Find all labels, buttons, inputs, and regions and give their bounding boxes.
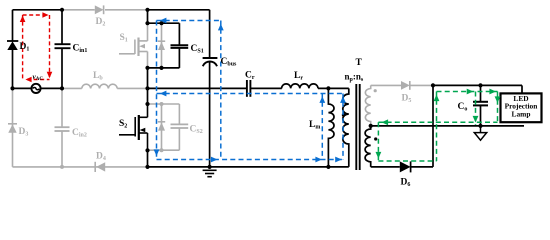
wire Cin2 leg lower: [61, 131, 63, 167]
node gray dots: [160, 102, 164, 106]
ground (under Cbus): [203, 170, 217, 176]
wire top rail gray: loop corner to D2: [62, 9, 95, 11]
wire Lb right lead: [117, 87, 147, 89]
input loop rectangle: [13, 10, 63, 89]
diode D2: [95, 5, 104, 14]
node dots (junctions): [10, 8, 482, 169]
bottom rail: [148, 166, 349, 168]
transistor S2 (MOSFET): [119, 104, 148, 150]
bridge leg upper segment: [147, 10, 149, 23]
diode D6: [400, 161, 411, 172]
resonant rail left: [148, 87, 247, 89]
wire Lb left lead: [62, 87, 82, 89]
diode D4: [95, 162, 105, 172]
wire Cin2 leg upper: [61, 88, 63, 127]
wire secondary bottom to D6: [371, 166, 400, 168]
source vAC: [31, 84, 40, 93]
diode D3: [8, 124, 17, 133]
svg-text:T: T: [356, 58, 363, 68]
transformer secondary bottom winding: [365, 126, 371, 167]
capacitor Cr: [247, 80, 251, 97]
bridge leg mid segment: [147, 68, 149, 104]
snubber 1 wires + capacitor CS1: [148, 23, 189, 68]
bridge leg lower segment: [147, 150, 149, 167]
capacitor Cbus: [203, 58, 218, 66]
ground (output, triangle): [474, 126, 486, 140]
wire D6 to output node (up): [411, 85, 433, 166]
inductor Lm: [328, 88, 334, 166]
wire bottom gray rail: [13, 166, 148, 168]
snubber 2 wires (inactive): [148, 104, 180, 150]
wire Cbus lower leg: [209, 62, 211, 167]
wire Lr to primary: [318, 87, 349, 89]
wire left leg down (node A to bottom rail): [12, 88, 14, 166]
diode DS1 (snubber diode, inactive): [158, 23, 165, 68]
wire Cbus upper leg: [209, 10, 211, 58]
capacitor Cin1: [55, 44, 71, 48]
inductor Lb: [82, 84, 117, 88]
transistor S1 (MOSFET, inactive): [119, 23, 148, 68]
wire top rail to Cbus: [148, 9, 210, 11]
wire secondary top to D5: [371, 84, 401, 86]
wire D5 to output node: [410, 84, 433, 86]
output return rail (center tap): [371, 125, 524, 127]
wire D2 cathode to bridge node: [105, 9, 148, 11]
capacitor CS2: [171, 124, 189, 128]
LED Projection Lamp box: [501, 93, 542, 122]
transformer secondary top winding (inactive): [365, 85, 370, 126]
output top rail: [433, 85, 522, 93]
transformer core: [356, 84, 359, 170]
diode DS2 (snubber diode, inactive): [158, 104, 165, 150]
svg-text:Lamp: Lamp: [512, 109, 531, 118]
capacitor Cin2: [55, 127, 70, 131]
transformer primary winding: [343, 88, 349, 166]
wire Cr to Lr: [250, 87, 281, 89]
diode D1: [7, 41, 18, 50]
diode D5 (inactive): [401, 81, 410, 90]
capacitor Co: [473, 85, 488, 126]
inductor Lr: [282, 84, 318, 89]
